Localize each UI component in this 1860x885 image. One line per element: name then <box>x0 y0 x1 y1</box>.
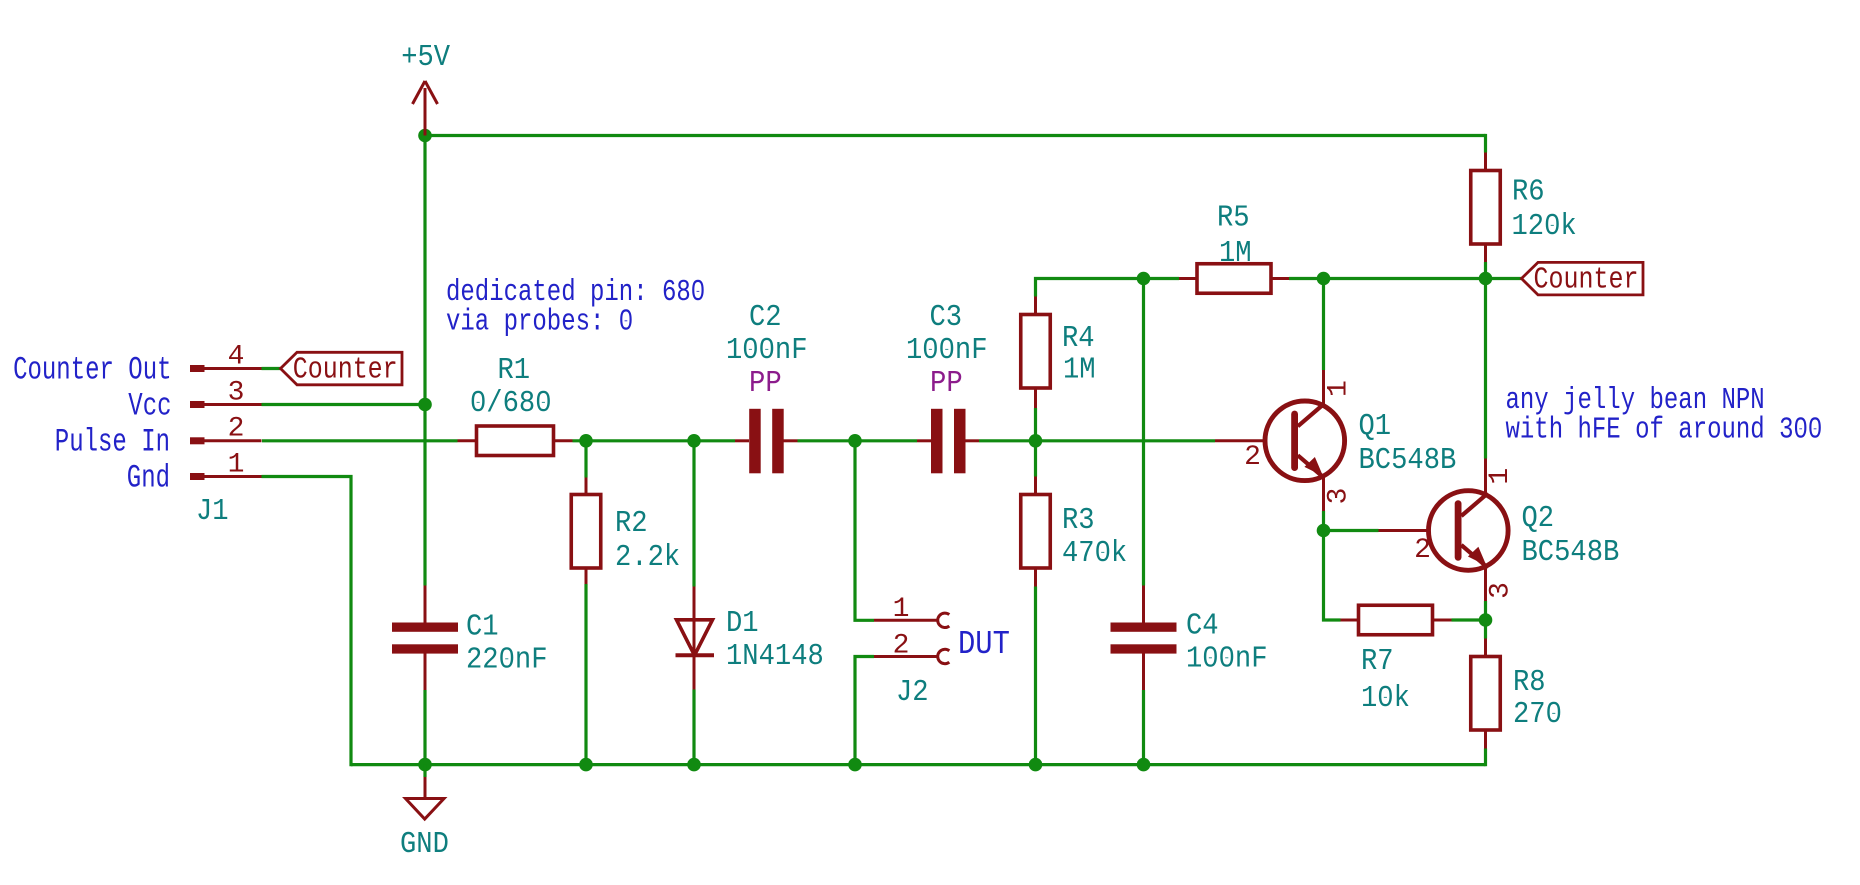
global label Counter (left) <box>281 352 403 387</box>
wire R5 node to C4 <box>1142 279 1145 586</box>
value 2.2k <box>615 541 680 575</box>
pin number 2 (Q1) <box>1244 442 1261 473</box>
ground GND symbol <box>406 765 445 819</box>
note with hFE of around 300 <box>1506 414 1823 448</box>
field PP (C2) <box>749 367 782 401</box>
wire node to R7 <box>1324 531 1341 621</box>
value 270 <box>1513 698 1562 732</box>
value BC548B (Q1) <box>1359 444 1457 478</box>
junction at (855,440.8) <box>848 434 862 448</box>
wire node to Q1 collector <box>1322 279 1325 371</box>
wire node to D1 <box>692 441 695 587</box>
svg-text:PP: PP <box>749 367 782 401</box>
svg-text:3: 3 <box>228 378 245 409</box>
svg-text:J1: J1 <box>196 495 229 529</box>
svg-text:1: 1 <box>228 450 245 481</box>
svg-text:R1: R1 <box>498 354 531 388</box>
svg-text:3: 3 <box>1324 488 1355 505</box>
wire node to Q2 base <box>1324 529 1379 532</box>
connector J1 pin stubs <box>190 365 262 480</box>
wire Q1 emitter to node <box>1322 511 1325 531</box>
resistor R8 <box>1471 639 1501 749</box>
resistor R2 <box>571 478 601 585</box>
value 1M (R5) <box>1219 237 1252 271</box>
wire Q2 emitter to R7 node <box>1484 601 1487 620</box>
pin name Gnd <box>127 460 170 497</box>
pin number 3 <box>228 378 245 409</box>
svg-text:DUT: DUT <box>958 626 1010 663</box>
wire R2 to ground rail <box>584 584 587 765</box>
junction at (1485.5,278.5) <box>1479 272 1493 286</box>
junction at (694,440.8) <box>687 434 701 448</box>
svg-text:1N4148: 1N4148 <box>726 640 824 674</box>
svg-text:D1: D1 <box>726 607 759 641</box>
svg-text:C4: C4 <box>1186 610 1219 644</box>
junction at (425,135.5) <box>418 129 432 143</box>
svg-text:2: 2 <box>893 631 910 662</box>
value 1M (R4) <box>1063 354 1096 388</box>
svg-text:R5: R5 <box>1217 202 1250 236</box>
resistor R4 <box>1021 297 1051 409</box>
note dedicated pin: 680 <box>446 276 705 310</box>
svg-text:J2: J2 <box>896 676 929 710</box>
wire R8 to ground rail <box>1484 749 1487 767</box>
wire J1 Pulse In to R1 <box>262 439 458 442</box>
wire R4 top to R5 node <box>1036 279 1180 297</box>
connector J2 pin 2 <box>874 649 949 663</box>
wire +5V top rail <box>425 134 1486 137</box>
svg-text:R8: R8 <box>1513 666 1546 700</box>
connector J2 pin 1 <box>874 613 949 627</box>
note via probes: 0 <box>446 306 633 340</box>
pin number 3 (Q2) <box>1486 582 1517 599</box>
label R1 <box>498 354 531 388</box>
svg-text:C2: C2 <box>749 301 782 335</box>
wire J1 Vcc to +5V rail <box>262 403 426 406</box>
wire R6 bottom to node <box>1484 262 1487 279</box>
svg-text:Counter: Counter <box>1534 264 1639 298</box>
power +5V symbol <box>413 81 438 136</box>
pin name DUT <box>958 626 1010 663</box>
svg-text:3: 3 <box>1486 582 1517 599</box>
wire right rail down to R6 <box>1484 134 1487 153</box>
wire J2 pin2 to ground rail <box>855 657 874 765</box>
svg-text:PP: PP <box>930 367 963 401</box>
svg-text:0/680: 0/680 <box>470 387 552 421</box>
label +5V <box>401 41 451 75</box>
wire C2 to C3 <box>798 439 918 442</box>
junction at (855,764.6) <box>848 758 862 772</box>
pin number 1 (Q1) <box>1324 380 1355 397</box>
svg-text:via probes: 0: via probes: 0 <box>446 306 633 340</box>
pin number 3 (Q1) <box>1324 488 1355 505</box>
svg-text:R4: R4 <box>1062 322 1095 356</box>
junction at (425,764.6) <box>418 758 432 772</box>
field PP (C3) <box>930 367 963 401</box>
pin number 1 (Q2) <box>1485 468 1516 485</box>
wire J1 pin4 to Counter label <box>262 367 282 370</box>
value 1N4148 <box>726 640 824 674</box>
junction at (586,440.8) <box>579 434 593 448</box>
label R8 <box>1513 666 1546 700</box>
label R5 <box>1217 202 1250 236</box>
pin name Vcc <box>128 388 171 425</box>
label J1 <box>196 495 229 529</box>
svg-text:Q2: Q2 <box>1522 502 1555 536</box>
resistor R3 <box>1021 477 1051 587</box>
wire ground bottom rail <box>351 763 1486 766</box>
wire node to J2 pin1 <box>855 441 874 621</box>
svg-text:Vcc: Vcc <box>128 388 171 425</box>
junction at (1143.5,278.5) <box>1137 272 1151 286</box>
junction at (1323.5,278.5) <box>1317 272 1331 286</box>
svg-text:4: 4 <box>228 342 245 373</box>
svg-text:R7: R7 <box>1361 645 1394 679</box>
svg-text:100nF: 100nF <box>1186 643 1268 677</box>
label C4 <box>1186 610 1219 644</box>
capacitor C3 <box>917 409 979 474</box>
capacitor C2 <box>735 409 798 474</box>
svg-text:1: 1 <box>1485 468 1516 485</box>
value 100nF (C3) <box>906 334 988 368</box>
svg-text:Pulse In: Pulse In <box>55 424 170 461</box>
wire C4 to ground rail <box>1142 690 1145 765</box>
junction at (1143.5,764.6) <box>1137 758 1151 772</box>
label J2 <box>896 676 929 710</box>
svg-text:470k: 470k <box>1062 537 1127 571</box>
diode D1 <box>676 587 715 690</box>
note any jelly bean NPN <box>1506 384 1765 418</box>
svg-text:1M: 1M <box>1219 237 1252 271</box>
junction at (1485.5,620) <box>1479 613 1493 627</box>
label R6 <box>1512 176 1545 210</box>
capacitor C4 <box>1111 586 1177 691</box>
wire C3 to Q1 base <box>979 439 1215 442</box>
wire node to R8 <box>1484 620 1487 639</box>
svg-text:BC548B: BC548B <box>1522 536 1620 570</box>
wire R7 to node <box>1452 618 1486 621</box>
junction at (425,404.5) <box>418 398 432 412</box>
label C3 <box>930 301 963 335</box>
wire D1 to ground rail <box>692 690 695 765</box>
pin number 4 <box>228 342 245 373</box>
label R2 <box>615 507 648 541</box>
svg-text:2: 2 <box>228 414 245 445</box>
junction at (1323.5,530.5) <box>1317 524 1331 538</box>
svg-text:2: 2 <box>1414 535 1431 566</box>
wire R5 to right rail <box>1289 277 1486 280</box>
pin number 1 (J2) <box>893 594 910 625</box>
value 100nF (C2) <box>726 334 808 368</box>
svg-text:1: 1 <box>1324 380 1355 397</box>
label R4 <box>1062 322 1095 356</box>
svg-text:Q1: Q1 <box>1359 410 1392 444</box>
resistor R7 <box>1341 605 1452 635</box>
wire node to Q2 collector <box>1484 279 1487 459</box>
pin number 2 (Q2) <box>1414 535 1431 566</box>
label Q2 <box>1522 502 1555 536</box>
label C1 <box>466 611 499 645</box>
resistor R6 <box>1471 153 1501 263</box>
svg-text:R2: R2 <box>615 507 648 541</box>
transistor Q2 <box>1379 459 1509 602</box>
value 120k <box>1512 210 1577 244</box>
resistor R5 <box>1179 264 1289 294</box>
svg-text:Gnd: Gnd <box>127 460 170 497</box>
wire R4 bottom to node <box>1034 408 1037 441</box>
svg-text:GND: GND <box>400 828 449 862</box>
value 0/680 <box>470 387 552 421</box>
svg-text:270: 270 <box>1513 698 1562 732</box>
junction at (694,764.6) <box>687 758 701 772</box>
transistor Q1 <box>1215 370 1345 511</box>
resistor R1 <box>458 426 573 456</box>
label GND <box>400 828 449 862</box>
junction at (1035.5,764.6) <box>1029 758 1043 772</box>
pin name Counter Out <box>13 352 171 389</box>
svg-text:Counter Out: Counter Out <box>13 352 171 389</box>
pin number 2 <box>228 414 245 445</box>
label D1 <box>726 607 759 641</box>
wire C1 bottom to ground rail <box>423 690 426 765</box>
wire R1 to C2 <box>573 439 736 442</box>
svg-text:100nF: 100nF <box>726 334 808 368</box>
value 220nF <box>466 644 548 678</box>
svg-text:2: 2 <box>1244 442 1261 473</box>
pin number 1 <box>228 450 245 481</box>
svg-text:1: 1 <box>893 594 910 625</box>
svg-text:R6: R6 <box>1512 176 1545 210</box>
value 100nF (C4) <box>1186 643 1268 677</box>
value 10k <box>1361 682 1410 716</box>
wire +5V vertical rail <box>423 136 426 586</box>
wire R3 bottom to ground rail <box>1034 587 1037 765</box>
value 470k <box>1062 537 1127 571</box>
svg-text:220nF: 220nF <box>466 644 548 678</box>
svg-text:1M: 1M <box>1063 354 1096 388</box>
svg-text:BC548B: BC548B <box>1359 444 1457 478</box>
label Q1 <box>1359 410 1392 444</box>
wire node to R2 <box>584 441 587 478</box>
svg-text:2.2k: 2.2k <box>615 541 680 575</box>
global label Counter (right) <box>1522 262 1644 297</box>
junction at (586,764.6) <box>579 758 593 772</box>
capacitor C1 <box>392 586 458 691</box>
svg-text:100nF: 100nF <box>906 334 988 368</box>
svg-text:+5V: +5V <box>401 41 451 75</box>
label R7 <box>1361 645 1394 679</box>
svg-text:R3: R3 <box>1062 504 1095 538</box>
label R3 <box>1062 504 1095 538</box>
svg-text:C1: C1 <box>466 611 499 645</box>
svg-text:10k: 10k <box>1361 682 1410 716</box>
svg-text:C3: C3 <box>930 301 963 335</box>
value BC548B (Q2) <box>1522 536 1620 570</box>
junction at (1035.5,440.8) <box>1029 434 1043 448</box>
svg-text:with hFE of around 300: with hFE of around 300 <box>1506 414 1823 448</box>
svg-text:Counter: Counter <box>293 354 398 388</box>
wire node to R3 top <box>1034 441 1037 477</box>
wire right rail to Counter label <box>1486 277 1522 280</box>
pin name Pulse In <box>55 424 170 461</box>
label C2 <box>749 301 782 335</box>
pin number 2 (J2) <box>893 631 910 662</box>
svg-text:120k: 120k <box>1512 210 1577 244</box>
wire J1 Gnd to ground rail <box>262 477 352 767</box>
